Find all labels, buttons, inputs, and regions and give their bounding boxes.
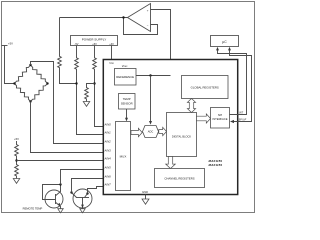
wire op-amp +input from VREF pin (151, 10, 171, 76)
wire bridge bottom node to AIN3 (31, 102, 116, 153)
svg-text:SPI I/F: SPI I/F (239, 119, 247, 122)
node B junction (93, 82, 95, 84)
svg-text:+: + (147, 8, 149, 12)
node bridge top (29, 64, 31, 66)
wire op-amp feedback loop (124, 18, 158, 35)
arrow digital block to SPI interface (197, 114, 211, 123)
svg-text:µC: µC (222, 40, 227, 44)
ADC block (143, 126, 159, 138)
resistor R1 (op-amp output to node A) (59, 18, 61, 55)
wire terminal to bridge left node (5, 46, 15, 84)
svg-text:GLOBAL REGISTERS: GLOBAL REGISTERS (191, 85, 219, 89)
svg-text:INTERFACE: INTERFACE (212, 117, 227, 121)
svg-text:POWER SUPPLY: POWER SUPPLY (82, 37, 107, 41)
border frame (decorative) (2, 2, 255, 213)
transistor Q1 (45, 190, 63, 208)
wire Q2 base to AIN6 (72, 179, 116, 193)
wire INT to microcontroller (218, 50, 247, 115)
node Q2 base junction (70, 191, 72, 193)
arrow MUX to ADC (131, 128, 142, 136)
wire node A to AIN1 (77, 71, 116, 135)
IC MAX1153/MAX1154 body (103, 60, 237, 195)
node A junction (75, 82, 77, 84)
node bridge right (46, 82, 48, 84)
svg-text:INT: INT (239, 111, 244, 114)
wire Q2 collector to AIN7 (88, 187, 116, 194)
ground (resistor R4) (83, 102, 90, 107)
node feedback junction (122, 16, 124, 18)
svg-text:+5V: +5V (8, 41, 13, 45)
svg-text:SPI: SPI (218, 113, 223, 117)
svg-text:DIGITAL BLOCK: DIGITAL BLOCK (172, 134, 192, 138)
svg-text:MAX1154: MAX1154 (209, 163, 223, 167)
svg-text:REMOTE TEMP: REMOTE TEMP (23, 206, 43, 210)
MUX block (116, 122, 131, 191)
wire reference to ADC with arrow (150, 76, 152, 122)
svg-text:AIN7: AIN7 (104, 182, 112, 186)
resistor R5 (divider top) (16, 141, 18, 144)
svg-text:+3V: +3V (109, 43, 114, 46)
digital block (167, 113, 197, 157)
bridge resistor RB3 (bottom-left) (15, 84, 31, 102)
wire SPI bus to microcontroller (230, 50, 252, 122)
channel registers block (155, 169, 205, 188)
wire bridge top node to AIN2 (31, 62, 116, 144)
power supply box (71, 36, 118, 46)
svg-text:GND: GND (142, 190, 148, 194)
node Q1 collector-base junction (59, 183, 61, 185)
svg-text:REFERENCE: REFERENCE (116, 75, 134, 79)
Q1 emitter with arrow (56, 202, 61, 208)
node bridge bottom (29, 100, 31, 102)
wire temp sensor to MUX with arrow (126, 109, 128, 119)
resistor R3 (+5V rail) (94, 46, 96, 57)
wire reference output to VREF pin (136, 75, 171, 77)
svg-text:−: − (147, 23, 149, 27)
svg-text:AIN5: AIN5 (104, 165, 112, 169)
terminal +5V bridge excitation (2, 45, 8, 47)
temp sensor block (119, 94, 136, 110)
bridge resistor RB1 (top-left) (15, 65, 31, 84)
global registers block (182, 76, 229, 99)
wire divider to AIN4 (17, 160, 116, 162)
svg-text:-5V: -5V (75, 43, 79, 46)
arrowhead SPI bus into SPI interface (230, 120, 234, 123)
bridge resistor RB2 (top-right) (31, 65, 48, 84)
reference block (115, 69, 137, 86)
wire op-amp output (60, 17, 128, 19)
wire node B to AIN0 (95, 71, 116, 127)
svg-text:AIN0: AIN0 (104, 122, 112, 126)
arrow ADC to digital block (159, 127, 167, 135)
node reference output junction (149, 74, 151, 76)
ground (Q2 emitter) (80, 209, 86, 213)
svg-text:MUX: MUX (120, 155, 127, 159)
node bridge left (13, 82, 15, 84)
wire Q1 to AIN5 (61, 170, 116, 185)
svg-text:AIN4: AIN4 (104, 156, 112, 160)
svg-text:ADC: ADC (148, 130, 154, 134)
wire +3V supply to VDD pin (111, 46, 113, 60)
bridge resistor RB4 (bottom-right) (31, 84, 48, 102)
op-amp U1 (128, 4, 151, 32)
resistor R2 (-5V rail) (76, 46, 78, 57)
ground (divider) (13, 179, 20, 184)
ground (IC GND pin) (142, 199, 149, 204)
svg-text:+5V: +5V (14, 137, 19, 141)
resistor R6 (divider bottom) (15, 164, 19, 176)
transistor Q2 (73, 189, 92, 208)
resistor R4 (node B to ground) (87, 84, 95, 88)
arrow global registers / digital block (187, 99, 195, 113)
svg-text:AIN2: AIN2 (104, 139, 112, 143)
svg-text:SENSOR: SENSOR (121, 101, 133, 105)
ground (Q1 emitter) (58, 209, 64, 213)
node Q2 collector junction (86, 192, 88, 194)
microcontroller box (211, 36, 239, 47)
svg-text:AIN6: AIN6 (104, 174, 112, 178)
svg-text:AIN1: AIN1 (104, 130, 112, 134)
node divider junction (15, 159, 17, 161)
Q2 emitter with arrow (82, 198, 84, 209)
SPI interface block (211, 108, 230, 129)
svg-text:+5V: +5V (92, 43, 97, 46)
arrow digital block to channel registers (166, 157, 176, 169)
svg-text:CHANNEL REGISTERS: CHANNEL REGISTERS (164, 176, 194, 180)
svg-text:AIN3: AIN3 (104, 148, 112, 152)
